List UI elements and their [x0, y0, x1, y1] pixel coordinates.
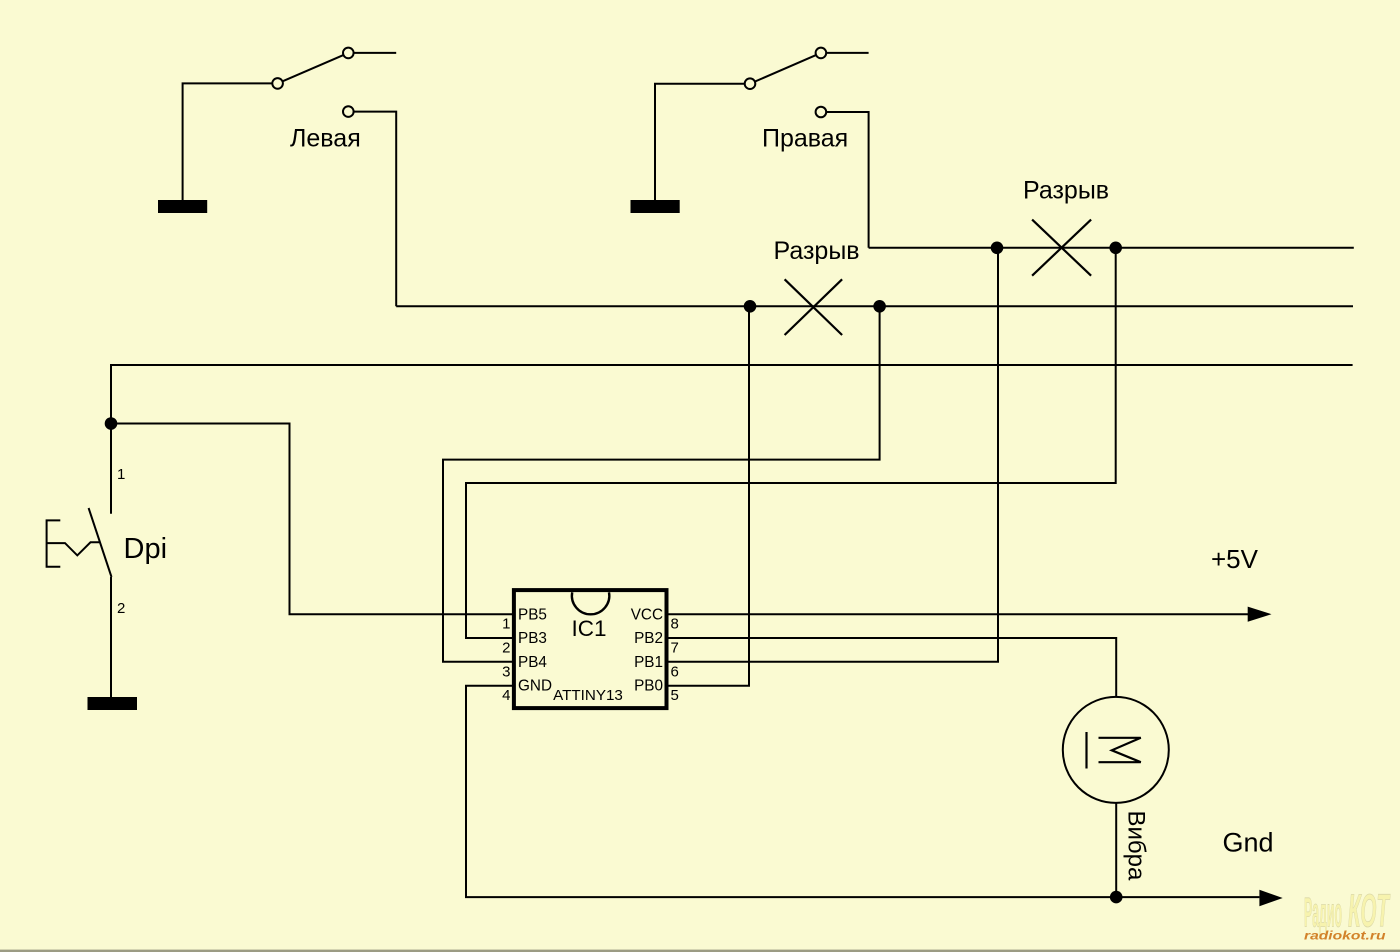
svg-text:PB0: PB0 — [634, 678, 663, 695]
svg-text:1: 1 — [502, 616, 510, 633]
svg-text:Разрыв: Разрыв — [774, 237, 860, 265]
svg-text:6: 6 — [671, 663, 679, 680]
svg-text:PB3: PB3 — [518, 630, 547, 647]
svg-text:GND: GND — [518, 678, 552, 695]
svg-text:Dpi: Dpi — [124, 533, 168, 565]
svg-text:PB5: PB5 — [518, 606, 547, 623]
svg-text:7: 7 — [671, 640, 679, 657]
svg-text:8: 8 — [671, 616, 679, 633]
svg-text:3: 3 — [502, 663, 510, 680]
svg-text:5: 5 — [671, 687, 679, 704]
svg-text:Разрыв: Разрыв — [1023, 177, 1109, 205]
svg-text:4: 4 — [502, 687, 510, 704]
svg-text:IC1: IC1 — [572, 616, 607, 641]
svg-text:+5V: +5V — [1211, 544, 1259, 574]
svg-text:radiokot.ru: radiokot.ru — [1304, 929, 1386, 943]
svg-text:Вибра: Вибра — [1122, 811, 1149, 882]
svg-text:VCC: VCC — [631, 606, 663, 623]
svg-text:ATTINY13: ATTINY13 — [553, 687, 623, 704]
svg-text:PB1: PB1 — [634, 654, 663, 671]
svg-text:PB2: PB2 — [634, 630, 663, 647]
svg-text:Gnd: Gnd — [1223, 828, 1274, 858]
svg-text:2: 2 — [117, 600, 125, 617]
svg-text:1: 1 — [117, 466, 125, 483]
svg-text:PB4: PB4 — [518, 654, 547, 671]
svg-text:2: 2 — [502, 640, 510, 657]
svg-text:Левая: Левая — [290, 125, 361, 153]
svg-text:Правая: Правая — [762, 125, 848, 153]
